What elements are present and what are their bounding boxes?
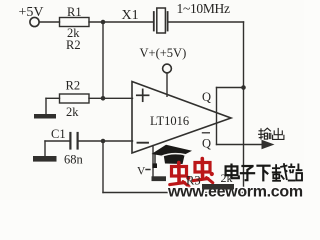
- svg-text:Q: Q: [202, 90, 211, 104]
- svg-text:Q: Q: [202, 137, 211, 151]
- svg-text:R1: R1: [67, 5, 82, 19]
- svg-text:LT1016: LT1016: [150, 114, 189, 128]
- svg-text:1~10MHz: 1~10MHz: [177, 1, 231, 16]
- svg-text:R2: R2: [66, 38, 81, 52]
- svg-text:V+(+5V): V+(+5V): [140, 46, 187, 60]
- svg-text:V: V: [137, 166, 146, 178]
- svg-text:R2: R2: [66, 79, 81, 93]
- svg-text:2k: 2k: [66, 105, 79, 119]
- svg-text:68n: 68n: [64, 153, 84, 167]
- svg-text:C1: C1: [51, 127, 66, 141]
- svg-text:X1: X1: [122, 8, 139, 23]
- svg-text:www.eeworm.com: www.eeworm.com: [167, 184, 303, 201]
- svg-text:+5V: +5V: [19, 5, 44, 20]
